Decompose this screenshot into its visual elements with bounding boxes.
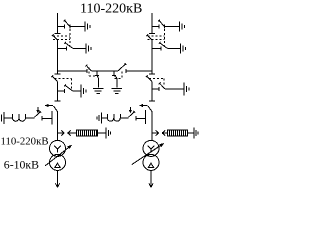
transformer T2 star (Y) symbol (148, 146, 155, 153)
earthing knife 2 contact tick (66, 47, 68, 51)
transformer T1 star (Y) symbol (54, 146, 61, 153)
wire earthing knife 2 to ground (73, 48, 86, 50)
svg-text:6-10кВ: 6-10кВ (4, 158, 39, 172)
switch contact tick right coupling branch (135, 116, 137, 120)
arrester arrow right coupling branch (129, 107, 132, 113)
wire bridge middle segment (91, 70, 118, 72)
wire earthing knife 3 to ground (165, 88, 184, 90)
mechanical linkage dashed vertical QSR1 (164, 29, 166, 46)
arrester arrow left coupling branch (36, 107, 39, 113)
otdelitel QRR blade (148, 106, 152, 112)
bridge earthing knife 2 blade (114, 75, 117, 78)
otdelitel QRR actuation arrow (139, 104, 148, 107)
wire left coupling branch switch to coupling capacitor (42, 118, 52, 120)
earthing knife 3 contact tick (158, 87, 160, 91)
wire bridge earthing stem 1 (97, 78, 99, 88)
HF cable (hatched) left (77, 130, 98, 136)
disconnector QSL2 fixed-contact tick (55, 73, 61, 75)
wire earthing knife 1 to ground (70, 26, 85, 28)
wire left coupling branch line trap to switch (26, 117, 35, 119)
linkage dashed vertical QSB2 (121, 72, 123, 79)
disconnector QSR2 fixed-contact tick (149, 73, 155, 75)
linkage dashed horizontal QSB2 (114, 77, 121, 79)
wire right cable to termination (188, 132, 194, 134)
switch contact tick left coupling branch (41, 116, 43, 120)
ground below bridge 1 (93, 88, 104, 93)
mechanical linkage dashed vertical QSL2 (71, 79, 73, 89)
disconnector QSL1 fixed-contact tick (55, 33, 61, 35)
earthing knife 2 contact tick (160, 47, 162, 51)
linkage dashed vertical QSB1 (88, 68, 90, 77)
earthing knife 2 blade (64, 42, 72, 49)
wire bridge left segment (58, 70, 88, 72)
wire earthing tap 1 of QSL1 (58, 26, 65, 28)
label 110-220kV (top) (80, 2, 142, 17)
wire earthing knife 3 to ground (72, 90, 80, 92)
earthing knife 1 pivot tick (69, 25, 71, 29)
mechanical linkage dashed horizontal QSL2 (55, 78, 72, 80)
wire left cable to termination (98, 132, 106, 134)
LV outgoing arrow T1 (55, 183, 59, 187)
coupling ground right coupling branch (points left) (97, 113, 102, 124)
transformer T1 tap-changer arrow (45, 145, 72, 166)
wire right coupling branch ground to line trap (101, 117, 107, 119)
disconnector QSL1 blade (in feeder) (52, 34, 58, 40)
wire feeder L segment below QSL2 (57, 82, 59, 102)
plug connector left right arrow (points left) (68, 130, 77, 135)
plug connector right left arrow (points right) (152, 130, 159, 135)
transformer T1 HV winding circle (50, 140, 66, 156)
linkage dashed horizontal QSB1 (89, 75, 97, 77)
wire bridge right segment (126, 70, 152, 72)
wire earthing knife 2 to ground (167, 48, 180, 50)
earthing knife 3 contact tick (64, 89, 66, 93)
svg-text:110-220кВ: 110-220кВ (80, 2, 142, 17)
transformer T2 HV winding circle (143, 140, 159, 156)
earthing knife 1 pivot tick (164, 25, 166, 29)
transformer T1 delta symbol (55, 163, 60, 167)
label 110-220kV (at left transformer) (1, 136, 49, 148)
bridge disconnector QSB2 contact tick (125, 69, 127, 73)
wire feeder R segment below QSR1 (151, 40, 153, 74)
disconnector QSR1 blade (in feeder) (146, 34, 152, 40)
wire earthing tap 3 of QSR2 (152, 88, 159, 90)
ground below bridge 2 (112, 88, 123, 93)
mechanical linkage dashed horizontal a QSR1 (148, 35, 165, 37)
wire feeder R segment below QSR2 (151, 82, 153, 102)
mechanical linkage dashed vertical QSL1 (69, 29, 71, 46)
bridge disconnector QSB1 contact tick (86, 69, 88, 73)
earthing knife 2 blade (159, 42, 167, 49)
coupling capacitor plate right coupling branch (144, 110, 146, 124)
disconnector QSL2 blade (in feeder) (51, 75, 57, 81)
disconnector QSR1 fixed-contact tick (149, 33, 155, 35)
coupling capacitor plate left coupling branch (51, 111, 53, 125)
bridge earthing contact T1 (95, 71, 99, 75)
bridge disconnector QSB2 blade (118, 63, 126, 71)
wire earthing tap 3 of QSL2 (58, 90, 65, 92)
wire T2 LV outgoing stem (150, 170, 152, 187)
switch blade right coupling branch in coupling branch (129, 111, 136, 117)
termination ground left (points right) (106, 128, 110, 139)
earthing knife 1 blade (158, 20, 164, 27)
otdelitel QRR fixed-contact tick (149, 100, 155, 102)
LV outgoing arrow T2 (149, 183, 153, 187)
mechanical linkage dashed horizontal b QSR1 (148, 39, 165, 41)
otdelitel QRL fixed-contact tick (55, 100, 61, 102)
line trap (HF choke) left coupling branch (13, 114, 26, 121)
mechanical linkage dashed horizontal a QSL1 (53, 35, 70, 37)
HF cable (hatched) right (168, 130, 188, 136)
earthing knife 1 blade (64, 20, 70, 27)
wire feeder R segment below QRR (151, 112, 153, 141)
ground of earthing knife 2 (181, 44, 186, 54)
line trap (HF choke) right coupling branch (107, 114, 120, 121)
transformer T2 tap-changer arrow (132, 143, 165, 165)
label 6-10kV (at left transformer LV) (4, 158, 39, 172)
bridge earthing contact T2 (112, 71, 116, 75)
otdelitel QRL actuation arrow (45, 104, 54, 107)
wire earthing tap 2 of QSR1 (152, 48, 161, 50)
ground of earthing knife 2 (86, 44, 91, 54)
plug connector right right arrow (points left) (162, 130, 167, 135)
wire right coupling branch line trap to switch (120, 117, 128, 119)
transformer T2 LV winding circle (143, 154, 159, 170)
mechanical linkage dashed vertical QSR2 (163, 79, 165, 87)
switch blade left coupling branch in coupling branch (35, 111, 42, 117)
termination ground right (points right) (194, 128, 198, 139)
earthing knife 1 contact tick (158, 25, 160, 29)
transformer T2 delta symbol (148, 163, 153, 167)
mechanical linkage dashed horizontal b QSL1 (53, 39, 70, 41)
svg-text:110-220кВ: 110-220кВ (1, 136, 49, 148)
wire earthing knife 1 to ground (165, 26, 180, 28)
ground of earthing knife 1 (179, 22, 184, 32)
wire left coupling branch ground to line trap (4, 117, 12, 119)
wire earthing tap 2 of QSL1 (58, 48, 67, 50)
ground of earthing knife 3 (81, 85, 86, 98)
transformer T1 LV winding circle (50, 154, 66, 170)
wire feeder L segment below QSL1 (57, 40, 59, 74)
ground of earthing knife 1 (85, 22, 90, 32)
otdelitel QRL blade (54, 106, 58, 112)
earthing knife 1 contact tick (64, 25, 66, 29)
wire T1 LV outgoing stem (57, 170, 59, 187)
bridge disconnector QSB1 blade (85, 65, 91, 71)
ground of earthing knife 3 (184, 83, 189, 96)
wire earthing tap 1 of QSR1 (152, 26, 159, 28)
earthing knife 3 blade (64, 84, 72, 91)
wire feeder R incoming segment (151, 13, 153, 34)
earthing knife 3 blade (159, 82, 165, 88)
disconnector QSR2 blade (in feeder) (146, 75, 152, 81)
plug connector left left arrow (points right) (58, 130, 65, 135)
wire right coupling branch switch to coupling capacitor (136, 118, 145, 120)
wire bridge earthing stem 2 (116, 78, 118, 88)
bridge earthing knife 1 blade (97, 75, 99, 78)
mechanical linkage dashed horizontal QSR2 (149, 78, 164, 80)
wire feeder L segment below QRL (57, 112, 59, 141)
coupling ground left coupling branch (points left) (2, 112, 4, 124)
wire feeder L incoming segment (57, 13, 59, 34)
